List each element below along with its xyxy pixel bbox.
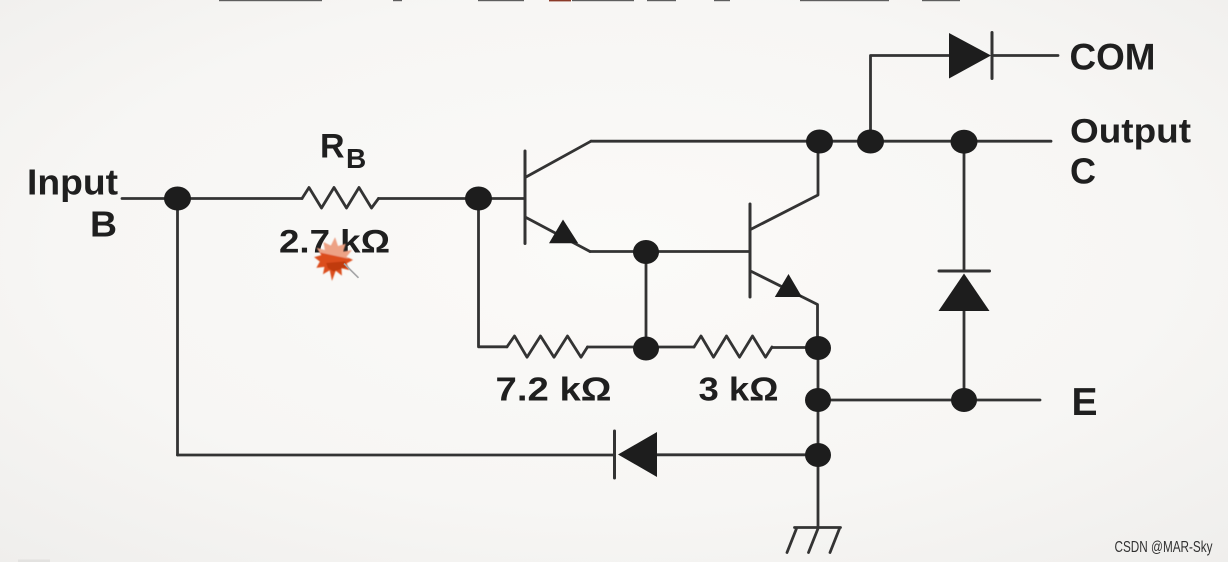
cropped text remnants top edge — [219, 0, 960, 1]
transistor Q2 collector — [751, 142, 819, 230]
resistor RB — [302, 188, 379, 209]
wire: 3k to emitter node — [772, 346, 818, 349]
resistor R2 7.2k — [507, 336, 588, 357]
svg-text:7.2 kΩ: 7.2 kΩ — [496, 371, 612, 408]
transistor Q1 emitter arrow — [549, 220, 578, 244]
junction dot: diode D3 node — [805, 443, 831, 467]
transistor Q1 emitter — [526, 218, 590, 252]
junction dot: output C node — [951, 130, 978, 154]
junction dot: output / Q2 collector — [806, 130, 833, 154]
diode D3 cathode bar — [613, 431, 616, 478]
cropped mark bottom-left — [18, 560, 50, 562]
junction dot: COM branch node — [857, 130, 884, 154]
wire: 7.2k to node N1 — [588, 346, 647, 349]
leaf stem — [344, 264, 359, 278]
svg-text:C: C — [1070, 151, 1096, 192]
svg-text:Input: Input — [27, 162, 118, 203]
wire: output net top — [591, 140, 1051, 143]
wire: D1 to COM label — [992, 54, 1058, 57]
transistor Q2 emitter — [751, 271, 818, 348]
transistor Q1 base bar — [524, 151, 527, 244]
wire: to ground — [817, 455, 820, 528]
resistor R3 3k — [694, 336, 772, 357]
junction dot: N1 resistor junction — [633, 337, 659, 361]
wire: E lead — [818, 399, 1040, 402]
svg-text:B: B — [346, 143, 366, 174]
wire: D2 to E node — [963, 311, 966, 400]
diode D3 triangle — [618, 432, 657, 477]
junction dot: Q1 emitter / Q2 base node — [633, 240, 659, 264]
wire: Q1 emitter node down to N1 — [645, 252, 648, 347]
diode D2 cathode bar — [939, 270, 990, 273]
diode D1 triangle — [949, 33, 991, 79]
svg-text:COM: COM — [1070, 37, 1156, 78]
transistor Q2 emitter arrow — [775, 274, 802, 297]
transistor Q2 base bar — [749, 204, 752, 297]
junction dot: Input B node — [164, 187, 191, 211]
wire: RB to Q1 base node — [379, 197, 526, 200]
svg-text:CSDN @MAR-Sky: CSDN @MAR-Sky — [1115, 539, 1213, 556]
junction dot: E lead node — [951, 388, 977, 412]
diode D2 triangle — [939, 274, 990, 312]
ground symbol — [787, 528, 841, 553]
svg-text:B: B — [90, 204, 117, 245]
wire: output node down to D2 — [963, 142, 966, 271]
wire: COM branch vertical — [871, 56, 950, 142]
decoration: maple leaf sticker — [310, 234, 358, 282]
svg-text:E: E — [1072, 381, 1098, 424]
transistor Q1 collector — [526, 141, 591, 177]
wire: emitter node chain — [817, 348, 820, 455]
junction dot: Q1 base node — [465, 187, 492, 211]
wire: Q1 emitter to Q2 base — [590, 250, 750, 253]
junction dot: emitter E node — [805, 388, 831, 412]
diode D1 cathode bar — [991, 33, 994, 79]
wire: Input B lead to junction — [122, 197, 302, 200]
wire: input loop bottom — [178, 454, 615, 457]
svg-text:3 kΩ: 3 kΩ — [699, 371, 779, 408]
svg-text:R: R — [320, 128, 345, 166]
wire: input loop vertical — [176, 199, 179, 456]
junction dot: Q2 emitter / 3k node — [805, 336, 831, 360]
wire: N1 to resistor 3k — [646, 346, 694, 349]
wire: D3 to emitter node — [657, 453, 818, 456]
wire: base node down to resistor 7.2k — [479, 199, 508, 347]
svg-text:Output: Output — [1070, 113, 1191, 151]
